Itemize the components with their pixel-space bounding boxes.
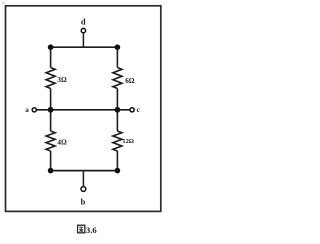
wire middle horizontal a-c [36,109,130,111]
resistor 6ohm [113,68,122,89]
resistor 3ohm [46,68,55,89]
svg-text:a: a [25,106,29,114]
junction top-right [115,44,121,50]
resistor 12ohm [113,131,122,151]
resistor 4ohm [46,131,55,151]
terminal node c [130,108,134,112]
junction mid-left [48,107,54,113]
wire stub node b [82,171,84,187]
wire left branch upper lead [50,47,52,67]
speck artifact top-left [2,2,4,4]
svg-text:6Ω: 6Ω [125,77,135,85]
wire stub node d [82,33,84,47]
terminal node d [81,28,85,32]
junction mid-right [115,107,121,113]
wire left branch bottom lead [50,151,52,171]
wire left branch middle lead [50,89,52,110]
svg-text:3.6: 3.6 [86,225,97,235]
wire left branch lower lead [50,110,52,131]
terminal node a [32,108,36,112]
terminal node b [81,187,86,192]
wire right branch bottom lead [116,151,118,171]
svg-text:b: b [81,196,86,206]
junction bottom-left [48,168,54,174]
wire bottom horizontal [51,170,118,172]
caption glyph tu (boxed character) [78,225,85,233]
wire right branch middle lead [116,89,118,110]
svg-text:4Ω: 4Ω [57,139,67,147]
wire top horizontal [51,46,118,48]
border frame of figure [6,6,161,212]
svg-text:d: d [81,17,86,27]
junction bottom-right [115,168,121,174]
wire right branch lower lead [116,110,118,131]
junction top-left [48,44,54,50]
wire right branch upper lead [116,47,118,67]
svg-text:12Ω: 12Ω [122,138,134,145]
svg-text:c: c [137,106,141,114]
svg-text:3Ω: 3Ω [57,76,67,84]
